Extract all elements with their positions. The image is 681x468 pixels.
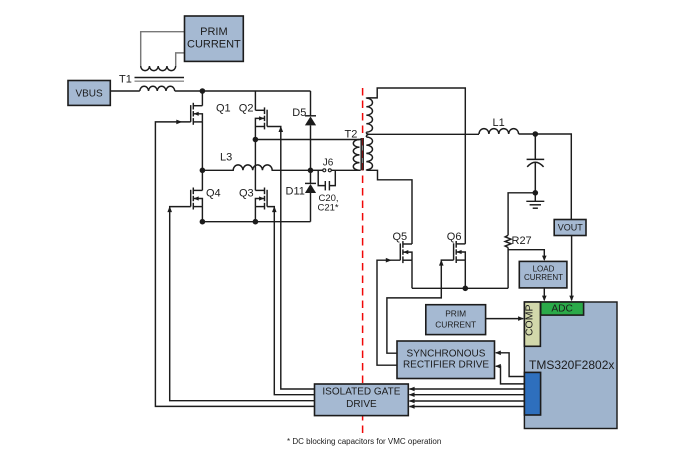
wire ePWM to sync rectifier drive lower <box>496 366 525 384</box>
ADC block <box>541 302 584 315</box>
wire T2 primary top to leg B node <box>255 139 360 141</box>
transistor Q4 <box>191 188 203 210</box>
COMP block <box>523 302 540 346</box>
PRIM CURRENT box (comp input) <box>426 305 486 335</box>
wire Q1 drain <box>201 91 203 106</box>
node output cap <box>533 131 539 137</box>
wire T2 secondary bottom to Q5 drain <box>366 170 412 244</box>
svg-text:D11: D11 <box>286 185 305 197</box>
transistor Q3 <box>255 188 267 210</box>
svg-text:Q3: Q3 <box>239 187 254 199</box>
wire rectifier source rail <box>412 287 508 289</box>
transformer T2 <box>353 98 372 170</box>
node clamp diodes / L3 <box>308 168 314 174</box>
node Q4 source <box>200 219 206 225</box>
ISOLATED GATE DRIVE box <box>315 384 409 416</box>
node Q3 source <box>253 219 259 225</box>
LOAD CURRENT box <box>519 261 567 288</box>
PRIM CURRENT sense box (top) <box>185 16 244 61</box>
svg-text:VBUS: VBUS <box>75 88 103 99</box>
svg-text:ADC: ADC <box>551 304 573 315</box>
resistor R27 <box>505 193 544 288</box>
capacitors C20 C21 (DC blocking) <box>318 170 335 190</box>
svg-text:T2: T2 <box>345 129 358 141</box>
svg-text:CURRENT: CURRENT <box>524 273 563 282</box>
transistor Q2 <box>255 107 267 129</box>
wire VOUT to ADC <box>571 236 573 301</box>
svg-text:J6: J6 <box>323 158 334 169</box>
transistor Q1 <box>191 103 203 125</box>
wire Q2 gate to isolated gate drive <box>267 127 314 390</box>
wire leg B Q2 source to Q3 drain <box>254 127 256 191</box>
node Q6 source rail <box>463 286 469 292</box>
svg-text:COMP: COMP <box>523 305 535 337</box>
svg-text:R27: R27 <box>512 235 532 247</box>
wire leg A Q1 source to Q4 drain <box>201 122 203 190</box>
diode D11 <box>305 170 316 221</box>
svg-text:TMS320F2802x: TMS320F2802x <box>529 358 614 372</box>
svg-text:Q1: Q1 <box>216 103 231 115</box>
svg-text:Q5: Q5 <box>393 231 408 243</box>
wire Q5 source <box>411 260 413 288</box>
wire Q6 gate to sync rectifier drive <box>387 260 454 353</box>
ePWM connector block <box>524 372 540 415</box>
svg-text:L1: L1 <box>493 117 505 129</box>
svg-text:L3: L3 <box>220 152 232 164</box>
wire ePWM to gate drive 3 <box>409 400 524 402</box>
jumper J6 <box>311 169 361 172</box>
wire Q5 gate to sync rectifier drive <box>377 260 400 365</box>
VBUS box <box>68 81 110 106</box>
TMS320F2802x controller box <box>524 302 617 429</box>
wire bridge bottom rail <box>202 221 310 223</box>
svg-text:* DC blocking capacitors for V: * DC blocking capacitors for VMC operati… <box>287 437 441 446</box>
svg-text:PRIM: PRIM <box>445 309 466 319</box>
node bus Q1 drain <box>200 88 206 94</box>
svg-text:SYNCHRONOUS: SYNCHRONOUS <box>407 349 486 360</box>
wire bus T1 to D5 <box>175 90 311 92</box>
svg-text:VOUT: VOUT <box>558 223 584 233</box>
wire Q6 source <box>464 260 466 288</box>
wire Q2 drain <box>254 91 256 110</box>
wire VBUS to T1 primary <box>110 90 140 92</box>
inductor L3 <box>202 165 310 170</box>
wire Q1 gate to isolated gate drive <box>155 122 314 407</box>
svg-text:Q2: Q2 <box>239 103 254 115</box>
wire Q3 source <box>254 207 256 222</box>
ground <box>526 193 544 208</box>
wire PRIM CURRENT to COMP <box>486 318 524 320</box>
wire T2 secondary top to Q6 drain <box>366 88 465 244</box>
svg-text:D5: D5 <box>292 107 306 119</box>
node leg A midpoint <box>200 168 206 174</box>
isolation boundary red dashed line <box>362 88 364 435</box>
SYNCHRONOUS RECTIFIER DRIVE box <box>397 341 495 379</box>
wire ePWM to gate drive 1 <box>409 388 524 390</box>
svg-text:RECTIFIER DRIVE: RECTIFIER DRIVE <box>403 359 489 370</box>
wire ePWM to gate drive 2 <box>409 394 524 396</box>
svg-text:Q6: Q6 <box>447 231 462 243</box>
svg-text:DRIVE: DRIVE <box>346 399 377 410</box>
svg-text:CURRENT: CURRENT <box>187 39 241 51</box>
svg-text:PRIM: PRIM <box>200 26 228 38</box>
wire Q4 gate to isolated gate drive <box>170 207 315 401</box>
output capacitor <box>527 134 545 193</box>
wire Q4 source <box>201 207 203 222</box>
wire Q3 gate to isolated gate drive <box>267 207 314 395</box>
transformer T1 <box>135 32 185 91</box>
transistor Q6 <box>454 241 466 263</box>
wire LOAD CURRENT to ADC <box>543 288 545 300</box>
wire ePWM to sync rectifier drive upper <box>496 353 525 377</box>
svg-text:T1: T1 <box>119 74 132 86</box>
wire center tap to L1 <box>370 133 480 135</box>
svg-text:CURRENT: CURRENT <box>435 320 476 330</box>
svg-text:ISOLATED GATE: ISOLATED GATE <box>322 386 400 397</box>
transistor Q5 <box>400 241 412 263</box>
node ground <box>533 190 539 196</box>
svg-text:Q4: Q4 <box>206 187 221 199</box>
VOUT box <box>554 220 586 236</box>
diode D5 <box>305 91 316 170</box>
node Q2 source / primary top <box>253 137 259 143</box>
wire ePWM to gate drive 4 <box>409 406 524 408</box>
svg-text:C21*: C21* <box>318 202 339 213</box>
wire L1 to VOUT drop <box>519 134 572 220</box>
inductor L1 <box>479 129 519 134</box>
